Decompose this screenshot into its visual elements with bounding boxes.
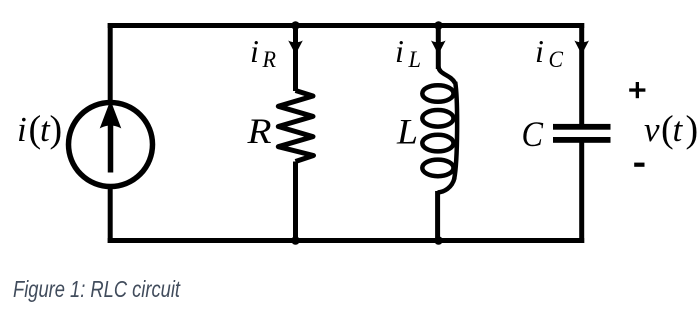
inductor L coil bottom exit bbox=[438, 178, 455, 193]
svg-text:v: v bbox=[644, 110, 660, 149]
svg-text:): ) bbox=[686, 109, 699, 151]
wire: resistor branch upper segment bbox=[293, 26, 298, 92]
svg-text:C: C bbox=[549, 47, 564, 72]
polarity minus sign bbox=[634, 163, 644, 167]
wire: resistor branch lower segment bbox=[293, 162, 298, 241]
wire: left branch lower segment (current source to bottom bus) bbox=[108, 189, 113, 243]
wire: top bus from left corner to right corner bbox=[108, 23, 585, 28]
inductor L coil loop 4 bbox=[422, 160, 453, 177]
node B : junction dot top of inductor branch bbox=[434, 21, 443, 30]
svg-text:t: t bbox=[673, 110, 684, 149]
inductor L coil loop 2 bbox=[422, 110, 453, 127]
svg-text:i: i bbox=[17, 110, 27, 149]
svg-text:i: i bbox=[395, 33, 404, 69]
current arrow iL bbox=[431, 41, 446, 55]
svg-text:i: i bbox=[535, 33, 544, 69]
svg-text:): ) bbox=[50, 109, 63, 151]
current source I1 circle bbox=[69, 103, 153, 187]
capacitor C bottom plate bbox=[553, 137, 611, 143]
wire: inductor branch lower segment bbox=[435, 191, 440, 241]
wire: inductor branch upper segment bbox=[436, 26, 441, 70]
capacitor C top plate bbox=[553, 124, 611, 130]
svg-text:i: i bbox=[250, 33, 259, 69]
inductor L coil: top hook bbox=[438, 67, 455, 84]
node A : junction dot top of resistor branch bbox=[291, 21, 300, 30]
svg-text:L: L bbox=[396, 112, 418, 152]
current arrow iR bbox=[288, 41, 303, 55]
svg-text:R: R bbox=[246, 111, 271, 151]
wire: bottom bus from left corner to right corner bbox=[108, 238, 585, 243]
svg-text:R: R bbox=[262, 47, 276, 72]
current source I1 arrow (pointing up) bbox=[108, 122, 114, 173]
current arrow iC bbox=[574, 41, 589, 55]
inductor L coil loop 3 bbox=[422, 135, 453, 152]
inductor L coil loop 1 bbox=[422, 85, 453, 102]
wire: left branch upper segment (top bus to current source) bbox=[108, 23, 113, 100]
wire: capacitor branch lower segment bbox=[579, 142, 584, 243]
node D : junction dot bottom of inductor branch bbox=[434, 236, 443, 245]
inductor L coil right strand bbox=[454, 82, 457, 179]
wire: capacitor branch upper segment bbox=[579, 23, 584, 124]
svg-text:L: L bbox=[408, 47, 421, 72]
resistor R zigzag bbox=[278, 91, 313, 162]
svg-text:Figure 1: RLC circuit: Figure 1: RLC circuit bbox=[13, 276, 181, 302]
node C2 : junction dot bottom of resistor branch bbox=[291, 236, 300, 245]
polarity plus sign bbox=[629, 88, 645, 91]
svg-text:C: C bbox=[522, 114, 544, 154]
